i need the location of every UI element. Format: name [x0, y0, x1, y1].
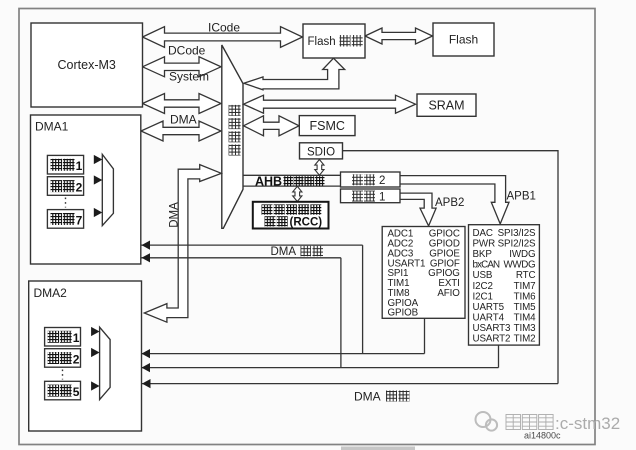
- box Flash interface (Flash jiekou): [303, 24, 365, 58]
- net C: bottom DMA request line to DMA2: [142, 383, 558, 385]
- arrow ICode (Cortex-M3 to Flash interface): [143, 21, 303, 48]
- box DMA2 channel tongdao 2: [45, 349, 81, 368]
- arrowhead net A into DMA2: [142, 349, 151, 358]
- arrow bus-matrix to FSMC: [244, 116, 300, 136]
- arrowhead net C into DMA2: [142, 379, 151, 388]
- svg-text:UART4: UART4: [473, 313, 505, 324]
- box FSMC: [299, 116, 355, 136]
- watermark weixinhao:c-stm32: [506, 414, 620, 433]
- svg-text:UART5: UART5: [473, 302, 505, 313]
- box DMA2 channel tongdao 1: [45, 328, 81, 347]
- arrowheads DMA2 channels into mux: [91, 327, 100, 336]
- AHB system bus band: [243, 175, 341, 186]
- svg-text:GPIOB: GPIOB: [388, 308, 419, 319]
- svg-text:DCode: DCode: [168, 44, 206, 58]
- svg-text:Flash: Flash: [449, 33, 478, 47]
- box DMA2: [29, 281, 142, 431]
- svg-text:TIM2: TIM2: [514, 334, 536, 345]
- svg-text:1: 1: [73, 331, 80, 345]
- svg-text:DMA2: DMA2: [34, 286, 68, 300]
- arrow DMA (DMA1 to bus matrix): [141, 113, 221, 142]
- watermark wechat logo: [476, 412, 498, 431]
- arrow System (Cortex-M3 to bus matrix): [143, 70, 222, 114]
- arrow DMA2 / bus-matrix (bent, heads right+left): [144, 165, 221, 323]
- svg-text:TIM7: TIM7: [514, 281, 536, 292]
- arrowhead net A into DMA1: [142, 241, 151, 250]
- net B: APB1 peripherals DMA request to DMA1 and DMA2: [142, 258, 499, 368]
- arrowheads DMA1 channels into mux: [94, 155, 103, 164]
- svg-text:DMA: DMA: [169, 202, 181, 228]
- box DMA1 channel tongdao 1: [47, 155, 83, 174]
- box APB2 peripherals: [382, 227, 465, 319]
- box SDIO: [300, 143, 343, 159]
- svg-text::c-stm32: :c-stm32: [555, 414, 620, 433]
- box bridge2 (qiaojie 2): [341, 172, 401, 187]
- svg-text:DMA1: DMA1: [35, 120, 69, 134]
- svg-text:APB2: APB2: [435, 197, 464, 209]
- box RCC reset and clock control: [253, 202, 329, 229]
- svg-text:2: 2: [73, 352, 80, 366]
- arrow SDIO to AHB bus: [315, 160, 324, 176]
- arrow AHB bus to RCC: [293, 186, 302, 201]
- label AHB system bus (AHB xitong zongxian): [255, 175, 325, 189]
- svg-text:USB: USB: [473, 270, 493, 281]
- svg-text:TIM3: TIM3: [514, 323, 537, 334]
- arrow DCode (Cortex-M3 to bus matrix): [143, 44, 222, 77]
- box Cortex-M3: [31, 23, 143, 107]
- svg-text:2: 2: [76, 180, 83, 194]
- bus matrix (zongxian juzhen): [222, 45, 243, 228]
- svg-text:Cortex-M3: Cortex-M3: [58, 58, 116, 72]
- box DMA1 channel tongdao 7: [47, 210, 83, 229]
- wires DMA2 channels to mux: [81, 332, 96, 387]
- label DMA request qingqiu (bottom): [354, 390, 410, 404]
- svg-text:DMA: DMA: [170, 113, 197, 127]
- box Flash: [433, 23, 494, 56]
- box DMA2 channel tongdao 5: [45, 381, 81, 400]
- svg-text:2: 2: [379, 175, 385, 187]
- arrow bridge1 to APB2 peripherals: [400, 193, 436, 226]
- svg-text:1: 1: [76, 159, 83, 173]
- svg-text:7: 7: [76, 213, 83, 227]
- wires DMA1 channels to mux: [84, 160, 98, 213]
- svg-text:USART2: USART2: [473, 334, 511, 345]
- svg-text:SPI2/I2S: SPI2/I2S: [498, 239, 536, 250]
- box bridge1 (qiaojie 1): [341, 189, 401, 203]
- bottom cropped caption remnants: [341, 447, 415, 450]
- svg-text:WWDG: WWDG: [504, 260, 536, 271]
- svg-text:TIM6: TIM6: [514, 291, 537, 302]
- label DMA request qingqiu (upper): [271, 246, 324, 258]
- svg-text:Flash: Flash: [308, 36, 336, 48]
- box DMA1: [31, 115, 141, 264]
- svg-text:1: 1: [379, 191, 385, 203]
- arrow bridge2 to APB1 peripherals: [400, 176, 509, 224]
- box APB1 peripherals: [469, 225, 540, 345]
- svg-text:DAC: DAC: [473, 228, 493, 239]
- svg-text:TIM5: TIM5: [514, 302, 537, 313]
- svg-text:DMA: DMA: [271, 246, 297, 258]
- svg-text:SRAM: SRAM: [428, 99, 464, 113]
- arrowhead net B into DMA1: [142, 253, 151, 262]
- wire SDIO right then down to bottom DMA request line: [343, 151, 559, 384]
- svg-text:SDIO: SDIO: [307, 146, 335, 158]
- svg-text:(RCC): (RCC): [290, 216, 323, 228]
- arrow Flash-interface to Flash: [365, 28, 433, 44]
- svg-text:I2C2: I2C2: [473, 281, 493, 292]
- arrow bus-matrix to SRAM: [244, 95, 416, 113]
- mux DMA1: [102, 154, 113, 225]
- svg-text:BKP: BKP: [473, 249, 493, 260]
- mux DMA2: [100, 327, 111, 399]
- svg-text:System: System: [169, 70, 209, 84]
- svg-text:FSMC: FSMC: [309, 119, 344, 133]
- svg-text:SPI3/I2S: SPI3/I2S: [498, 228, 536, 239]
- svg-text:PWR: PWR: [473, 239, 496, 250]
- svg-text:RTC: RTC: [516, 270, 536, 281]
- svg-text:5: 5: [73, 385, 80, 399]
- svg-text:ICode: ICode: [208, 21, 240, 35]
- arrow bus-matrix / Flash-interface (bent, heads left+up): [244, 58, 345, 90]
- box SRAM: [417, 94, 476, 116]
- svg-text:DMA: DMA: [354, 390, 381, 404]
- svg-text:AHB: AHB: [255, 175, 282, 189]
- dotted line DMA2 channels: [62, 370, 64, 380]
- svg-text:AFIO: AFIO: [437, 288, 460, 299]
- net A: APB2 peripherals DMA request to DMA1 and DMA2: [142, 245, 425, 354]
- svg-text:TIM4: TIM4: [514, 313, 537, 324]
- svg-text:IWDG: IWDG: [509, 249, 535, 260]
- svg-text:bxCAN: bxCAN: [473, 260, 501, 271]
- arrowhead net B into DMA2: [142, 363, 151, 372]
- svg-text:USART3: USART3: [473, 323, 512, 334]
- box DMA1 channel tongdao 2: [47, 177, 83, 196]
- svg-text:I2C1: I2C1: [473, 291, 493, 302]
- dotted line DMA1 channels: [65, 198, 67, 208]
- svg-text:ai14800c: ai14800c: [524, 431, 561, 441]
- svg-text:APB1: APB1: [507, 191, 536, 203]
